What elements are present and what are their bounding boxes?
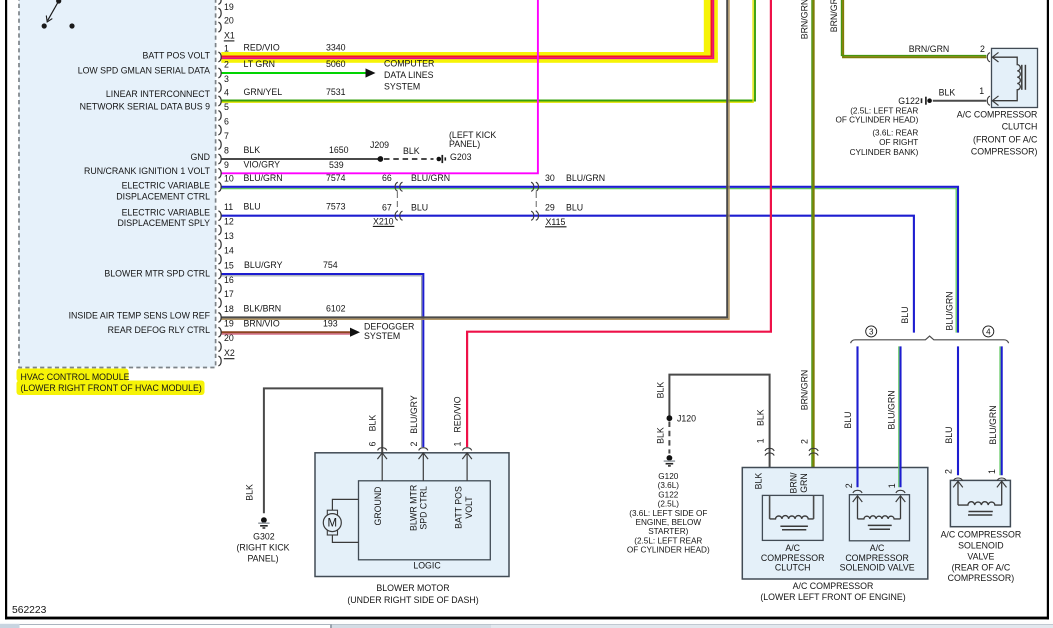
svg-text:SYSTEM: SYSTEM [364, 331, 400, 341]
svg-text:REAR DEFOG RLY CTRL: REAR DEFOG RLY CTRL [108, 325, 210, 335]
svg-text:15: 15 [224, 261, 234, 271]
svg-text:A/C COMPRESSOR: A/C COMPRESSOR [941, 529, 1022, 539]
clutch top right labels [898, 44, 985, 106]
svg-text:BLK: BLK [368, 415, 378, 432]
rotated pin numbers solenoid valve [844, 483, 897, 488]
svg-text:OF CYLINDER HEAD): OF CYLINDER HEAD) [836, 116, 919, 125]
svg-text:COMPRESSOR: COMPRESSOR [761, 553, 825, 563]
svg-text:1: 1 [453, 441, 463, 446]
svg-text:OF CYLINDER HEAD): OF CYLINDER HEAD) [627, 546, 710, 555]
svg-text:BLU/GRN: BLU/GRN [945, 291, 955, 330]
wire pin1 RED/VIO 3340 (highlighted) [222, 0, 712, 56]
svg-text:STARTER): STARTER) [648, 527, 688, 536]
svg-text:193: 193 [323, 318, 338, 328]
splice J120 [667, 415, 673, 421]
svg-text:LT GRN: LT GRN [244, 59, 275, 69]
svg-text:2: 2 [224, 60, 229, 70]
svg-text:3: 3 [224, 74, 229, 84]
svg-text:VOLT: VOLT [464, 496, 474, 519]
svg-text:17: 17 [224, 289, 234, 299]
svg-text:562223: 562223 [12, 605, 47, 616]
svg-text:COMPRESSOR: COMPRESSOR [845, 553, 909, 563]
svg-text:DISPLACEMENT CTRL: DISPLACEMENT CTRL [116, 192, 210, 202]
page border bottom [5, 617, 1049, 620]
HVAC control module box (dashed, cut at top) [19, 0, 216, 368]
svg-text:7: 7 [224, 131, 229, 141]
svg-text:CLUTCH: CLUTCH [775, 563, 811, 573]
svg-text:BLK: BLK [939, 88, 956, 98]
solenoid valve coil [858, 516, 901, 519]
rear solenoid coil core [969, 511, 993, 513]
svg-text:30: 30 [545, 173, 555, 183]
svg-text:VALVE: VALVE [967, 551, 994, 561]
clutch internal circuit with coil [993, 57, 1020, 100]
wire BLK G122 to clutch pin1 [933, 100, 987, 102]
svg-text:7573: 7573 [326, 202, 346, 212]
blower motor box [315, 453, 509, 577]
svg-text:66: 66 [382, 173, 392, 183]
svg-text:A/C: A/C [785, 543, 800, 553]
wire color/circuit labels [244, 43, 606, 329]
svg-text:BATT POS VOLT: BATT POS VOLT [143, 50, 211, 60]
svg-text:BRN/: BRN/ [789, 472, 799, 494]
inner A/C compressor solenoid valve box [849, 495, 909, 541]
svg-text:G122: G122 [658, 490, 678, 499]
svg-text:GROUND: GROUND [373, 486, 383, 525]
pin bracket arcs of HVAC connector [218, 0, 221, 366]
rear solenoid terminal arcs + arrows [953, 478, 962, 481]
svg-text:2: 2 [800, 439, 810, 444]
svg-text:(LOWER RIGHT FRONT OF HVAC MOD: (LOWER RIGHT FRONT OF HVAC MODULE) [21, 383, 202, 393]
inline connector X210 arcs [395, 182, 398, 191]
inline connector X115 arcs [531, 182, 534, 191]
svg-text:SOLENOID: SOLENOID [958, 540, 1003, 550]
svg-text:COMPUTER: COMPUTER [384, 59, 434, 69]
svg-text:CYLINDER BANK): CYLINDER BANK) [850, 148, 919, 157]
rotated labels inside compressor box [754, 472, 810, 494]
svg-text:G120: G120 [658, 472, 678, 481]
svg-text:(LOWER LEFT FRONT OF ENGINE): (LOWER LEFT FRONT OF ENGINE) [760, 592, 905, 602]
blower pin terminal arcs [378, 448, 387, 451]
wire pin8 BLK 1650 [222, 158, 381, 160]
A/C compressor solenoid valve rear box [950, 480, 1010, 526]
svg-text:BLU: BLU [900, 306, 910, 323]
svg-text:ELECTRIC VARIABLE: ELECTRIC VARIABLE [122, 181, 210, 191]
svg-text:BRN/GRN: BRN/GRN [909, 44, 950, 54]
bottom UI strip [0, 622, 1053, 628]
circled connector number 3 [866, 326, 877, 337]
svg-text:19: 19 [224, 2, 234, 12]
svg-text:2: 2 [943, 469, 953, 474]
logic box [359, 481, 491, 560]
computer data lines system label [384, 59, 434, 92]
inline connector arcs on clutch wires [765, 448, 774, 451]
svg-text:DATA LINES: DATA LINES [384, 70, 434, 80]
ground G120/G122 [664, 455, 675, 466]
partial switch symbol cut by top edge [42, 0, 75, 29]
X210 dashed link [396, 192, 398, 211]
svg-text:X115: X115 [546, 217, 566, 227]
svg-text:BLK: BLK [245, 484, 255, 501]
rear solenoid coil [958, 502, 1002, 505]
svg-text:J120: J120 [677, 413, 696, 423]
svg-text:19: 19 [224, 319, 234, 329]
svg-text:18: 18 [224, 304, 234, 314]
svg-text:BLK: BLK [244, 145, 261, 155]
svg-text:M: M [328, 518, 338, 530]
arrow to computer data lines system [366, 68, 376, 77]
svg-text:BLU/GRY: BLU/GRY [409, 395, 419, 434]
wire RED/VIO blower batt pos volt [467, 0, 771, 447]
motor leads [332, 499, 358, 542]
wire pin10 BLU/GRN 7574 [222, 187, 959, 333]
svg-text:(FRONT OF A/C: (FRONT OF A/C [973, 134, 1038, 144]
svg-text:BRN/VIO: BRN/VIO [244, 318, 280, 328]
arrow to defogger system [350, 328, 360, 337]
harness split brace [851, 336, 1009, 343]
svg-text:BLU/GRY: BLU/GRY [244, 260, 283, 270]
svg-text:BLU: BLU [944, 426, 954, 443]
clutch terminal arcs + arrows [987, 53, 990, 62]
wire pin2 LT GRN 5060 [222, 72, 367, 74]
blower internal pin leads [382, 454, 467, 481]
svg-text:8: 8 [224, 146, 229, 156]
HVAC module name label [21, 372, 202, 393]
HVAC pin numbers [224, 2, 235, 358]
motor M symbol [327, 510, 337, 515]
svg-text:754: 754 [323, 260, 338, 270]
svg-text:(UNDER RIGHT SIDE OF DASH): (UNDER RIGHT SIDE OF DASH) [347, 595, 478, 605]
svg-text:3: 3 [869, 327, 874, 336]
svg-text:LINEAR INTERCONNECT: LINEAR INTERCONNECT [106, 89, 211, 99]
svg-text:A/C COMPRESSOR: A/C COMPRESSOR [957, 110, 1038, 120]
svg-text:BLK: BLK [756, 409, 766, 426]
svg-text:RUN/CRANK IGNITION 1 VOLT: RUN/CRANK IGNITION 1 VOLT [84, 166, 211, 176]
page border right [1047, 0, 1049, 619]
splice J209 [378, 156, 384, 162]
svg-text:BLU/GRN: BLU/GRN [886, 390, 896, 429]
svg-text:2: 2 [980, 44, 985, 54]
svg-text:2: 2 [409, 441, 419, 446]
svg-text:BLK: BLK [754, 473, 764, 490]
svg-text:X2: X2 [224, 348, 235, 358]
rotated pin labels blower [245, 395, 474, 531]
svg-text:4: 4 [224, 88, 229, 98]
svg-text:GRN/YEL: GRN/YEL [244, 87, 283, 97]
svg-text:NETWORK SERIAL DATA BUS 9: NETWORK SERIAL DATA BUS 9 [80, 101, 210, 111]
svg-text:DEFOGGER: DEFOGGER [364, 321, 414, 331]
highlighter mark on HVAC CONTROL MODULE label line 1 [17, 369, 129, 382]
svg-text:29: 29 [545, 202, 555, 212]
svg-text:J209: J209 [370, 140, 389, 150]
clutch coil [770, 516, 814, 519]
svg-text:BLWR MTR: BLWR MTR [408, 485, 418, 531]
rear solenoid leads [958, 482, 1002, 505]
svg-text:13: 13 [224, 231, 234, 241]
rotated labels at clutch inline connector [756, 370, 810, 444]
svg-text:(REAR OF A/C: (REAR OF A/C [952, 562, 1011, 572]
X115 dashed link [535, 192, 537, 211]
X2 underline [224, 358, 235, 360]
dashed BLK wire J209 to G203 [384, 158, 434, 160]
rear solenoid text [941, 529, 1022, 583]
svg-text:BLOWER MTR SPD CTRL: BLOWER MTR SPD CTRL [104, 269, 210, 279]
svg-text:G203: G203 [450, 152, 472, 162]
svg-text:14: 14 [224, 246, 234, 256]
highlighter mark vertical at wire turn-up [704, 0, 718, 62]
svg-text:PANEL): PANEL) [449, 139, 480, 149]
wire BRN/GRN compressor clutch coil (vertical from top of page) [813, 0, 815, 519]
svg-text:1: 1 [224, 44, 229, 54]
svg-text:SPD CTRL: SPD CTRL [418, 486, 428, 530]
wire BLK from A/C compressor clutch to G120 [669, 375, 769, 519]
svg-text:BLOWER MOTOR: BLOWER MOTOR [376, 583, 449, 593]
highlighter mark on BATT POS VOLT label [116, 44, 200, 61]
svg-text:RED/VIO: RED/VIO [244, 43, 280, 53]
rotated labels below brace [843, 390, 998, 444]
svg-text:SOLENOID VALVE: SOLENOID VALVE [840, 563, 915, 573]
svg-text:BLU/GRN: BLU/GRN [411, 173, 450, 183]
clutch coil core [780, 525, 808, 527]
svg-text:COMPRESSOR): COMPRESSOR) [971, 147, 1038, 157]
clutch coil core lines [1021, 65, 1023, 90]
svg-text:1: 1 [756, 438, 766, 443]
svg-text:A/C COMPRESSOR: A/C COMPRESSOR [793, 581, 874, 591]
wire pin19 BRN/VIO 193 [222, 331, 351, 333]
solenoid valve coil core [868, 524, 892, 526]
HVAC pin labels left side [69, 50, 211, 335]
page border left [5, 0, 7, 619]
G203 location label [449, 130, 496, 162]
svg-text:1: 1 [987, 469, 997, 474]
svg-text:20: 20 [224, 15, 234, 25]
svg-text:6: 6 [224, 117, 229, 127]
wire BLU/GRN to solenoid valve pin1 (below brace) [899, 346, 901, 487]
svg-text:LOW SPD GMLAN SERIAL DATA: LOW SPD GMLAN SERIAL DATA [78, 66, 210, 76]
svg-text:5: 5 [224, 102, 229, 112]
svg-text:(3.6L: REAR: (3.6L: REAR [872, 128, 918, 137]
svg-text:GRN: GRN [799, 473, 809, 493]
ground G302 [258, 517, 269, 528]
circled connector number 4 [983, 326, 994, 337]
svg-text:ELECTRIC VARIABLE: ELECTRIC VARIABLE [122, 208, 210, 218]
svg-text:3340: 3340 [326, 43, 346, 53]
A/C compressor clutch box (top right) [992, 48, 1038, 107]
svg-text:10: 10 [224, 173, 234, 183]
svg-text:X1: X1 [224, 30, 235, 40]
svg-text:BLU/GRN: BLU/GRN [566, 173, 605, 183]
compressor text labels [760, 543, 914, 602]
svg-text:VIO/GRY: VIO/GRY [244, 159, 281, 169]
rotated BLK labels on G120 drop [655, 382, 665, 444]
svg-text:1: 1 [979, 86, 984, 96]
X210 underline [373, 225, 395, 227]
svg-text:2: 2 [844, 483, 854, 488]
svg-text:PANEL): PANEL) [247, 554, 278, 564]
svg-text:5060: 5060 [326, 59, 346, 69]
rotated pin numbers rear solenoid [943, 469, 997, 474]
svg-text:SYSTEM: SYSTEM [384, 82, 420, 92]
svg-text:BATT POS: BATT POS [453, 486, 463, 529]
svg-text:INSIDE AIR TEMP SENS LOW REF: INSIDE AIR TEMP SENS LOW REF [69, 311, 211, 321]
svg-text:BLU: BLU [843, 411, 853, 428]
svg-text:539: 539 [329, 160, 344, 170]
blower pin arrows [377, 453, 387, 459]
highlighter mark on HVAC CONTROL MODULE label line 2 [17, 381, 205, 396]
svg-text:COMPRESSOR): COMPRESSOR) [948, 573, 1015, 583]
svg-text:BLU/GRN: BLU/GRN [988, 405, 998, 444]
svg-text:20: 20 [224, 333, 234, 343]
wire BLU to solenoid valve pin2 (below brace) [856, 346, 858, 487]
svg-text:BRN/GRN: BRN/GRN [800, 370, 810, 411]
inner A/C compressor clutch box [762, 495, 823, 540]
svg-text:BLU/GRN: BLU/GRN [244, 173, 283, 183]
ground G203 [437, 155, 446, 163]
svg-text:G122: G122 [898, 96, 920, 106]
wire pin4 GRN/YEL 7531 [222, 0, 756, 101]
ground G122 (top right) [922, 97, 932, 105]
svg-text:(3.6L: LEFT SIDE OF: (3.6L: LEFT SIDE OF [629, 509, 707, 518]
svg-text:6102: 6102 [326, 304, 346, 314]
svg-text:BLU: BLU [566, 202, 583, 212]
svg-text:DISPLACEMENT SPLY: DISPLACEMENT SPLY [117, 218, 210, 228]
svg-text:67: 67 [382, 202, 392, 212]
svg-text:(2.5L: LEFT REAR: (2.5L: LEFT REAR [850, 106, 918, 115]
svg-text:7574: 7574 [326, 173, 346, 183]
svg-text:LOGIC: LOGIC [413, 561, 441, 571]
A/C compressor outer box [742, 468, 928, 580]
svg-text:BLU: BLU [244, 202, 261, 212]
svg-text:BLU: BLU [411, 202, 428, 212]
svg-text:CLUTCH: CLUTCH [1002, 122, 1038, 132]
rotated labels above brace [900, 291, 955, 330]
solenoid valve leads [858, 496, 901, 519]
svg-text:GND: GND [190, 152, 210, 162]
svg-text:11: 11 [224, 202, 233, 212]
svg-text:7531: 7531 [326, 87, 346, 97]
clutch leads into inner box [770, 495, 814, 519]
wire BLU to rear solenoid valve pin2 [957, 346, 959, 475]
X1 underline [224, 40, 235, 42]
svg-text:BLK: BLK [655, 382, 665, 399]
wire BRN/GRN to A/C compressor clutch (top right) [843, 0, 986, 57]
svg-text:4: 4 [986, 327, 991, 336]
svg-text:X210: X210 [373, 217, 394, 227]
wire pin11 BLU 7573 [222, 216, 914, 333]
svg-text:BLK: BLK [655, 427, 665, 444]
highlighter mark along RED/VIO wire [221, 52, 718, 63]
G120 location text [627, 472, 710, 555]
defogger system label [364, 321, 414, 341]
svg-text:12: 12 [224, 217, 234, 227]
svg-text:OF RIGHT: OF RIGHT [879, 138, 918, 147]
svg-text:16: 16 [224, 275, 234, 285]
dashed BLK to G120 [668, 422, 670, 454]
svg-text:1: 1 [887, 483, 897, 488]
svg-text:HVAC CONTROL MODULE: HVAC CONTROL MODULE [21, 372, 130, 382]
svg-text:ENGINE, BELOW: ENGINE, BELOW [636, 518, 702, 527]
svg-text:1650: 1650 [329, 145, 349, 155]
X115 underline [545, 226, 567, 228]
svg-text:6: 6 [368, 441, 378, 446]
svg-text:(2.5L): (2.5L) [658, 500, 680, 509]
svg-text:(3.6L): (3.6L) [658, 481, 680, 490]
svg-text:BRN/GRN: BRN/GRN [800, 0, 810, 39]
wire pin15 BLU/GRY 754 [222, 274, 424, 447]
wire pin18 BLK/BRN 6102 [222, 0, 728, 317]
svg-text:BLK: BLK [403, 146, 420, 156]
svg-text:RED/VIO: RED/VIO [453, 396, 463, 432]
svg-text:A/C: A/C [870, 543, 885, 553]
svg-text:BRN/GRN: BRN/GRN [829, 0, 839, 32]
wire pin9 VIO/GRY 539 [222, 0, 538, 173]
svg-text:BLK/BRN: BLK/BRN [244, 304, 282, 314]
svg-text:G302: G302 [253, 532, 275, 542]
wire BLK blower ground to G302 [264, 388, 382, 513]
svg-text:(2.5L: LEFT REAR: (2.5L: LEFT REAR [634, 536, 702, 545]
svg-text:9: 9 [224, 160, 229, 170]
solenoid valve terminal arcs + arrows [853, 490, 862, 493]
svg-text:(RIGHT KICK: (RIGHT KICK [236, 543, 289, 553]
wire BLU/GRN to rear solenoid valve pin1 [1001, 346, 1003, 475]
